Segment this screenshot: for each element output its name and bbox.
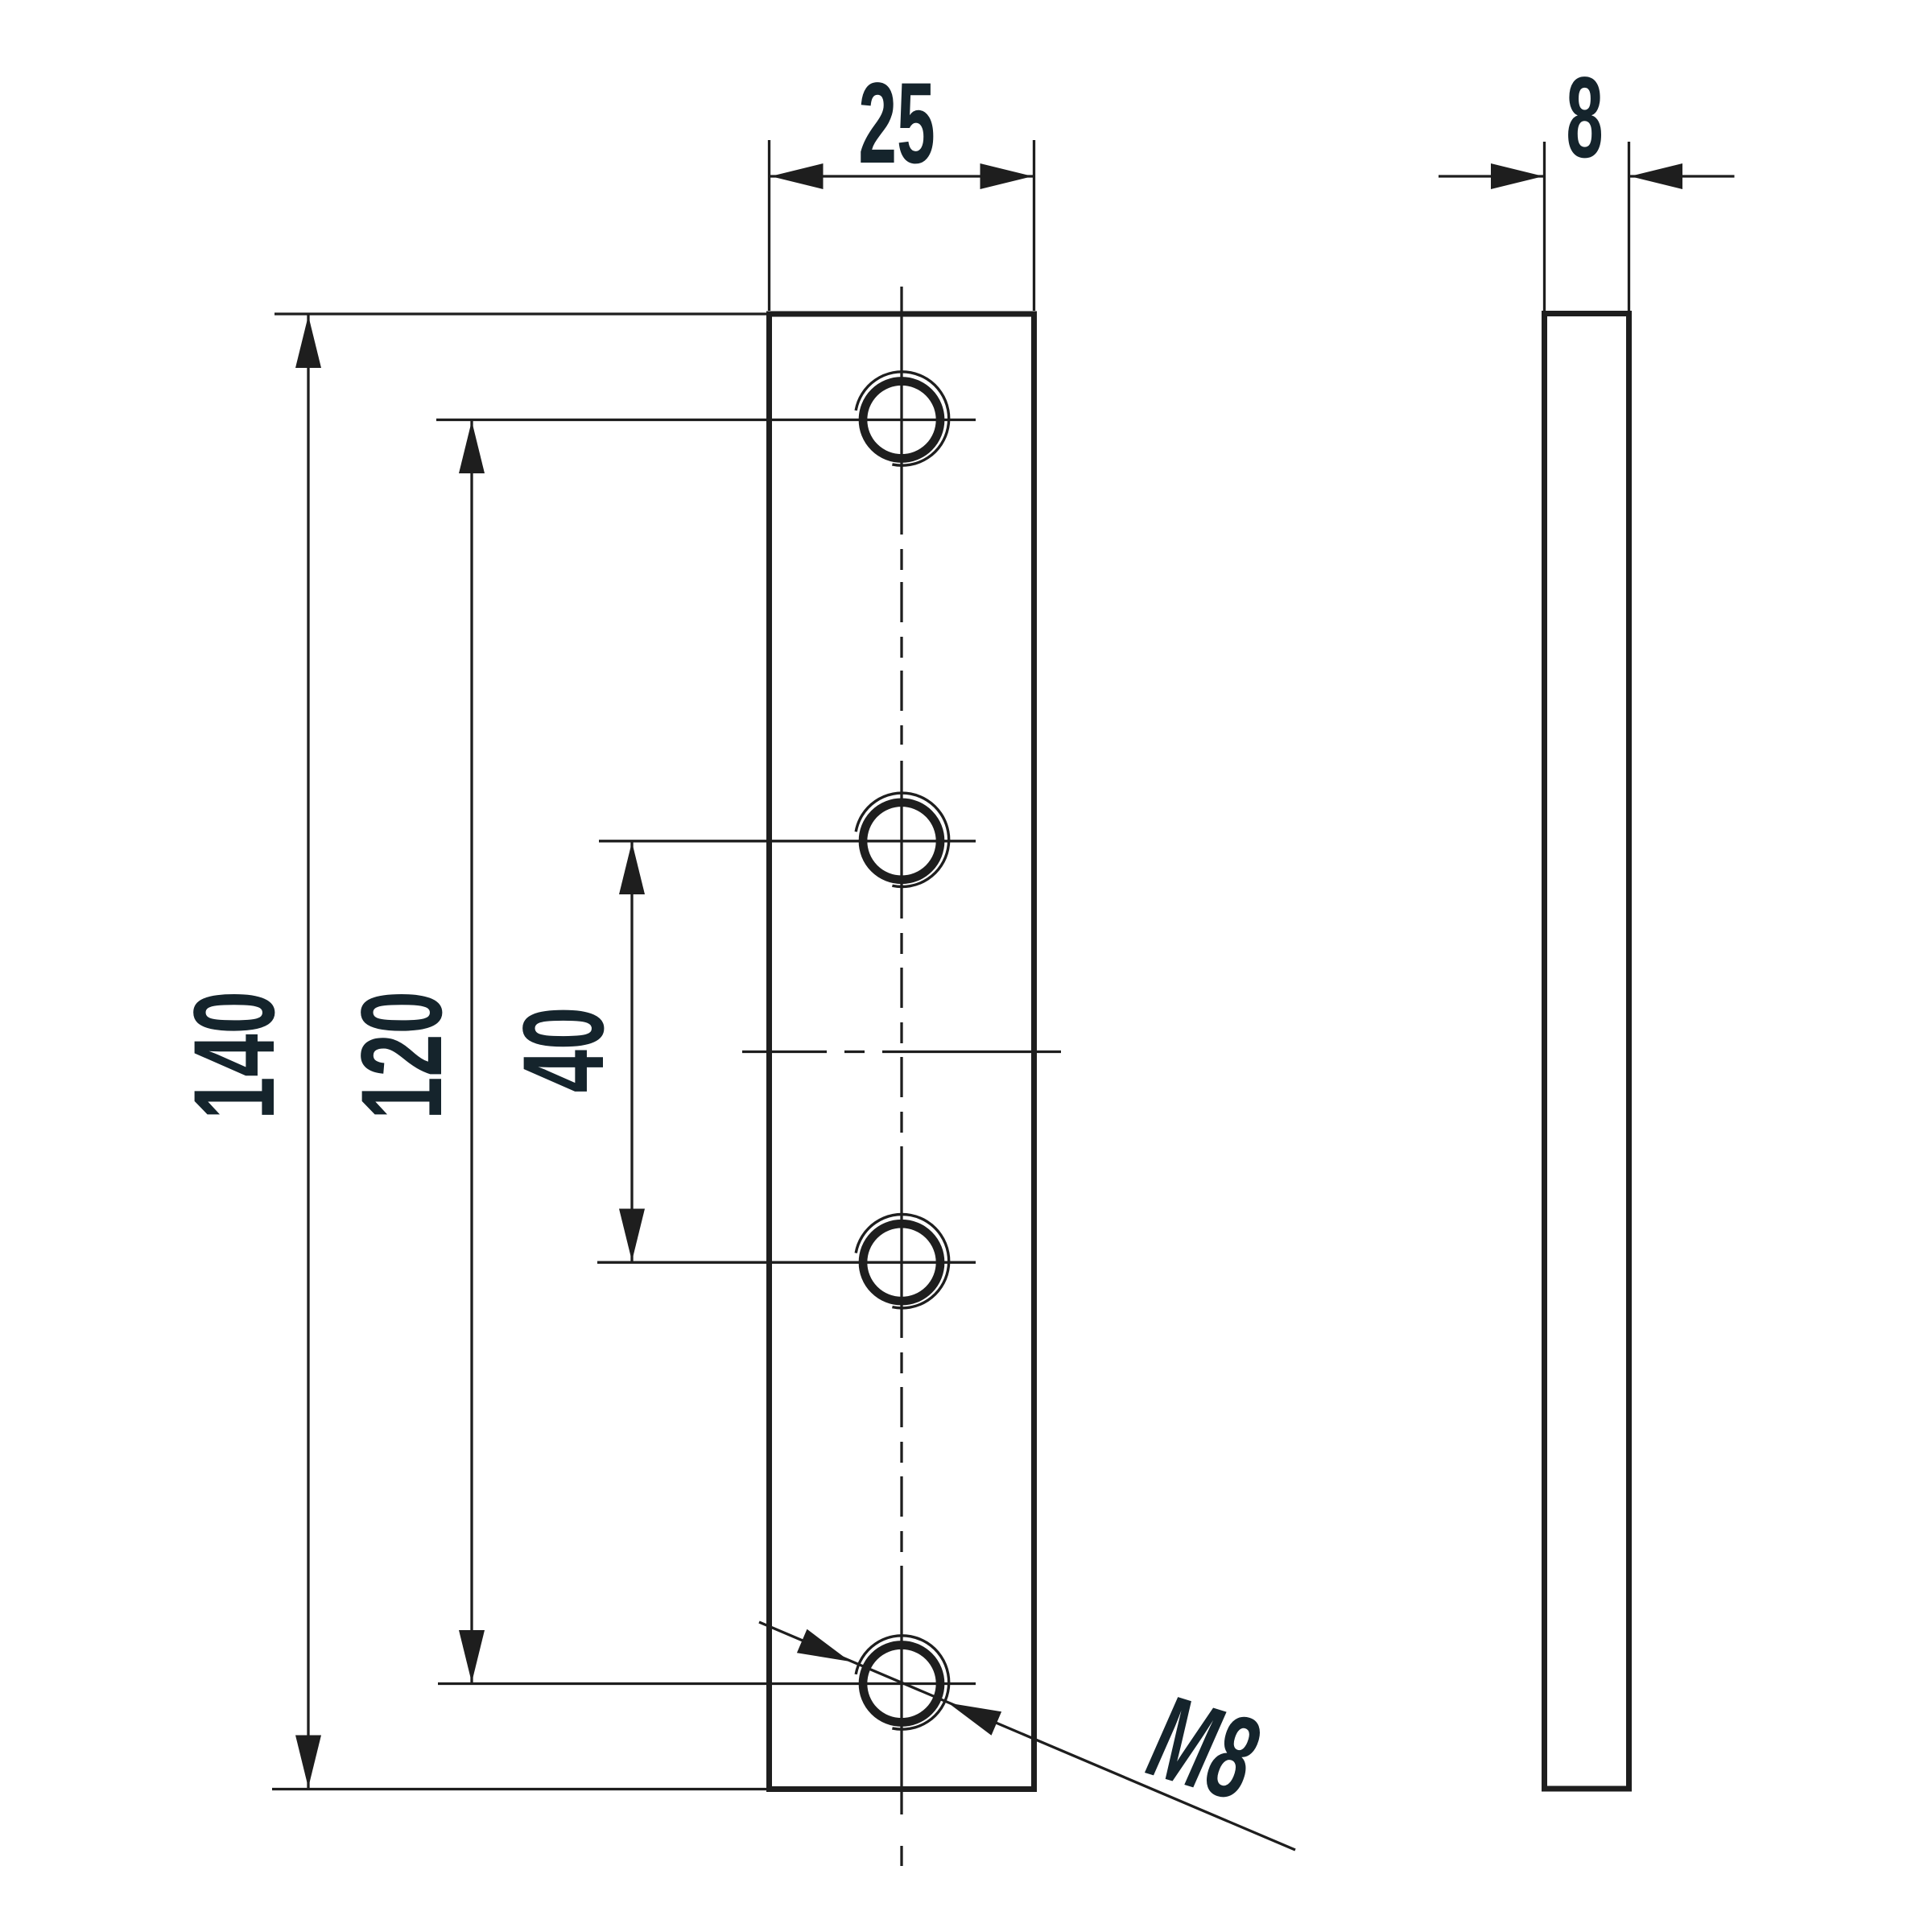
dimension 8: right arrowhead xyxy=(1630,163,1682,189)
dimension 40: dimension line xyxy=(630,841,633,1262)
dimension 8: left arrowhead xyxy=(1491,163,1543,189)
hole 3 horizontal centerline / extension line for 40 xyxy=(597,1261,976,1264)
hole 4 thread arc xyxy=(856,1636,949,1729)
dimension 25: left arrowhead xyxy=(771,163,824,189)
hole 3 thread arc xyxy=(856,1215,949,1308)
dimension 8: dimension line right segment xyxy=(1629,175,1735,177)
M8 leader line xyxy=(759,1622,1295,1850)
hole 1 horizontal centerline / extension line for 120 xyxy=(436,419,976,421)
dimension 8: extension line left xyxy=(1543,142,1546,311)
dimension 140: bottom arrowhead xyxy=(295,1736,321,1788)
svg-text:8: 8 xyxy=(1566,52,1603,181)
hole 4 horizontal centerline / extension line for 120 xyxy=(438,1682,976,1685)
dimension 120: dimension line xyxy=(470,420,473,1684)
dimension 25: right arrowhead xyxy=(980,163,1033,189)
dimension 25: extension line right xyxy=(1033,140,1035,311)
M8 leader arrowhead upper-left xyxy=(797,1629,850,1662)
dimension 25: value label xyxy=(858,58,935,187)
dimension 140: dimension line xyxy=(307,314,309,1790)
dimension 8: extension line right xyxy=(1628,142,1630,311)
hole 1 tapped hole circle xyxy=(863,382,940,459)
dimension 40: value label xyxy=(499,1007,628,1093)
svg-text:140: 140 xyxy=(170,991,299,1120)
plate side view outline xyxy=(1545,314,1629,1790)
M8 thread label xyxy=(1136,1669,1271,1826)
plate front view outline xyxy=(770,314,1034,1790)
hole 2 tapped hole circle xyxy=(863,803,940,880)
dimension 40: bottom arrowhead xyxy=(619,1209,645,1261)
dimension 120: bottom arrowhead xyxy=(459,1630,485,1682)
M8 leader arrowhead lower-right xyxy=(948,1703,1001,1736)
dimension 140: bottom extension line xyxy=(272,1788,766,1790)
dimension 8: dimension line left segment xyxy=(1439,175,1545,177)
svg-text:40: 40 xyxy=(499,1007,628,1093)
hole 2 thread arc xyxy=(856,793,949,886)
dimension 8: value label xyxy=(1566,52,1603,181)
hole 3 tapped hole circle xyxy=(863,1224,940,1301)
dimension 120: value label xyxy=(337,991,466,1120)
hole 4 tapped hole circle xyxy=(863,1645,940,1723)
dimension 120: top arrowhead xyxy=(459,421,485,473)
dimension 140: top extension line xyxy=(275,312,766,315)
svg-text:25: 25 xyxy=(858,58,935,187)
hole 1 thread arc xyxy=(856,372,949,465)
dimension 25: dimension line xyxy=(770,175,1034,177)
dimension 140: value label xyxy=(170,991,299,1120)
hole 2 horizontal centerline / extension line for 40 xyxy=(599,840,976,842)
dimension 40: top arrowhead xyxy=(619,842,645,894)
vertical centerline of holes (dash-dot) xyxy=(900,287,902,1866)
dimension 25: extension line left xyxy=(768,140,770,311)
svg-text:120: 120 xyxy=(337,991,466,1120)
horizontal mid centerline of plate (dash-dot) xyxy=(742,1051,1061,1053)
dimension 140: top arrowhead xyxy=(295,316,321,368)
